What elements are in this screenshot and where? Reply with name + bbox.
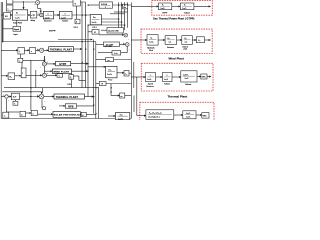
block ps2: [106, 66, 117, 77]
svg-text:1: 1: [105, 7, 106, 9]
svg-text:Kₚ₂: Kₚ₂: [109, 69, 112, 71]
block vi: [99, 82, 106, 86]
svg-text:Solar Field: Solar Field: [13, 22, 22, 25]
svg-text:GRC: GRC: [202, 77, 207, 79]
wind wires: [141, 39, 211, 41]
svg-text:Turbine: Turbine: [184, 12, 190, 14]
svg-text:1: 1: [150, 75, 151, 77]
block dclink2: [104, 42, 120, 47]
svg-text:Signal: Signal: [14, 29, 20, 31]
thermal block2: [163, 73, 173, 82]
block deadband: [57, 74, 63, 78]
wire c2 out: [47, 74, 58, 76]
wire left border: [0, 2, 2, 119]
block r1: [123, 4, 128, 9]
svg-text:1+sTᵣ: 1+sTᵣ: [185, 77, 190, 80]
block bottom left2: [31, 111, 37, 116]
block controller: [21, 68, 26, 78]
svg-text:a₁₂: a₁₂: [108, 60, 111, 62]
wire sp1b: [71, 73, 73, 74]
summing node banner1: [39, 48, 43, 52]
block sp1a: [75, 19, 80, 24]
banner thermal plant 1: [49, 47, 74, 52]
wire ps1 output: [101, 18, 118, 20]
thermal wires: [141, 76, 211, 79]
wire input arrow: [23, 1, 25, 9]
svg-text:GTPP: GTPP: [59, 64, 66, 66]
block topright: [99, 2, 112, 8]
svg-text:Turbine: Turbine: [164, 84, 170, 86]
svg-text:1+sKᵣTᵣ: 1+sKᵣTᵣ: [183, 73, 189, 76]
wire right bundle v3: [136, 77, 138, 116]
wire ctrl row: [1, 75, 8, 77]
svg-text:+: +: [122, 32, 123, 34]
wind block2: [165, 36, 177, 45]
svg-text:pitch: pitch: [184, 48, 188, 51]
wire right main border: [130, 3, 132, 119]
wire v35.8 area1: [35, 70, 37, 88]
wire hrow2: [4, 87, 99, 89]
svg-text:Kₚ₁: Kₚ₁: [168, 38, 171, 40]
block rfb: [65, 104, 76, 108]
summing cross marks: [36, 1, 128, 98]
svg-text:T₁₂/s: T₁₂/s: [114, 53, 118, 55]
svg-text:+: +: [3, 94, 4, 96]
wire bus verticals: [81, 2, 83, 88]
junction dots: [2, 5, 128, 115]
block sp1b: [69, 75, 74, 80]
svg-text:Kₘ₁+Kₘ₂s+Kₘ₃s²: Kₘ₁+Kₘ₂s+Kₘ₃s²: [149, 112, 162, 115]
banner gtpp2: [56, 61, 71, 65]
block v1: [92, 30, 99, 35]
block PS1: [90, 15, 101, 25]
block a2: [30, 48, 36, 54]
wire circle down: [37, 5, 39, 9]
banner solar pv: [53, 112, 80, 118]
svg-text:SOLAR PHOTOVOLTAIC: SOLAR PHOTOVOLTAIC: [54, 114, 83, 117]
wire right bundle v4: [133, 96, 135, 113]
svg-text:1+sTₖ: 1+sTₖ: [161, 8, 166, 10]
block after solar: [81, 112, 86, 117]
summing node wind1: [42, 62, 46, 66]
wire v1 left: [88, 31, 92, 33]
block area2 f2: [13, 101, 18, 105]
bottom block3: [202, 113, 209, 119]
svg-text:Thermal Plant: Thermal Plant: [168, 94, 188, 98]
thermal block1: [146, 73, 156, 82]
bottom block2: [183, 111, 196, 119]
block signal: [13, 26, 21, 31]
block governor1: [43, 11, 53, 19]
block B2: [8, 73, 15, 80]
summing node right2: [124, 33, 128, 37]
svg-text:1+sTₜ: 1+sTₜ: [164, 79, 169, 81]
wire top ext: [40, 1, 86, 3]
gtpp block2: [180, 3, 194, 10]
wire ps2 row: [88, 66, 106, 68]
wire row1: [1, 14, 12, 16]
wire left border2: [1, 2, 3, 42]
wire right bundle v2: [133, 62, 135, 88]
svg-text:THERMAL PLANT: THERMAL PLANT: [56, 96, 79, 99]
box top-left 1: [6, 0, 13, 4]
wire c1 top in: [43, 56, 45, 62]
wind block4: [196, 37, 204, 43]
svg-text:1+sTₜ: 1+sTₜ: [182, 8, 187, 10]
svg-text:s+1: s+1: [169, 42, 172, 44]
block a12: [124, 71, 129, 77]
svg-text:λ: λ: [4, 116, 5, 118]
block a12 upper: [106, 58, 114, 62]
box top-left 2: [6, 5, 13, 11]
wire top right box feed: [88, 4, 99, 6]
red box wind plant: [141, 29, 212, 53]
summing node rfb: [42, 107, 45, 110]
wire dclink2: [96, 43, 104, 45]
summing node wind2: [42, 73, 46, 77]
wire top feed: [13, 1, 36, 3]
svg-text:1+sTₛ: 1+sTₛ: [15, 18, 20, 20]
block B1: [4, 13, 11, 20]
wind block1: [147, 35, 158, 45]
svg-text:Reheat: Reheat: [185, 83, 191, 86]
gtpp block1: [159, 3, 172, 10]
svg-text:Kₚₛ: Kₚₛ: [93, 17, 96, 19]
svg-text:s: s: [19, 61, 20, 63]
wire area2 mid: [6, 99, 8, 112]
block t12b: [112, 51, 121, 56]
summing node right3: [125, 43, 129, 47]
wire solar row: [38, 113, 53, 115]
svg-text:s+1: s+1: [185, 42, 188, 44]
sign specks: [3, 4, 130, 102]
wire tangle h1: [114, 11, 128, 13]
summing node area2b: [39, 94, 44, 99]
block dclink1: [107, 28, 123, 34]
svg-text:1+sTₛ: 1+sTₛ: [45, 17, 50, 19]
svg-text:1+sTₚ: 1+sTₚ: [107, 74, 112, 76]
block solar field: [12, 10, 27, 20]
thermal grc: [201, 74, 207, 79]
block bottom corner: [3, 112, 9, 118]
svg-text:Kₚ₂: Kₚ₂: [185, 38, 188, 40]
svg-text:RFB: RFB: [68, 107, 74, 109]
svg-text:P.S.2: P.S.2: [108, 80, 112, 82]
wire topmid drop: [76, 6, 78, 19]
svg-text:+: +: [123, 42, 124, 44]
wire long sep: [2, 41, 95, 43]
svg-text:THERMAL PLANT: THERMAL PLANT: [50, 49, 73, 52]
svg-text:B₂: B₂: [10, 76, 12, 78]
wire v1 right: [99, 34, 124, 36]
svg-text:1+sTₚ: 1+sTₚ: [92, 22, 97, 24]
svg-text:Pitch: Pitch: [149, 49, 153, 52]
wire v30.9 area1: [30, 60, 32, 88]
svg-text:+: +: [35, 4, 36, 6]
svg-text:GTPP: GTPP: [162, 12, 168, 14]
wire tangle h4: [88, 24, 125, 26]
svg-text:+: +: [37, 49, 38, 51]
svg-text:1+sTₚ: 1+sTₚ: [149, 42, 154, 44]
svg-text:WIND PLANT: WIND PLANT: [53, 71, 69, 74]
svg-text:Actuator: Actuator: [167, 46, 174, 49]
wire sep2: [58, 39, 92, 41]
svg-text:DC LINK: DC LINK: [105, 46, 113, 48]
banner thermal plant 2: [54, 94, 85, 99]
block small58: [18, 58, 23, 62]
svg-text:(1+sT₁)(1+sT₂): (1+sT₁)(1+sT₂): [149, 117, 161, 119]
block a1: [18, 48, 25, 55]
svg-text:Kₛ: Kₛ: [16, 13, 18, 15]
svg-text:ƒ: ƒ: [19, 50, 20, 53]
red box bottom: [140, 102, 214, 122]
block ps3: [116, 113, 130, 120]
gtpp wires: [152, 5, 211, 7]
svg-text:Kₚ: Kₚ: [151, 38, 153, 40]
wire area2 banner row: [1, 96, 5, 98]
block turbine1: [60, 11, 73, 19]
wire area2 top: [2, 91, 41, 93]
wire tangle h3: [101, 21, 121, 23]
wire dclink row: [101, 29, 107, 31]
wire wind row: [44, 70, 52, 72]
svg-text:a₁₂: a₁₂: [125, 74, 128, 76]
svg-text:AC-DC LINK: AC-DC LINK: [108, 30, 119, 33]
svg-text:1+sTₖ: 1+sTₖ: [147, 79, 152, 81]
summing node row1: [40, 13, 44, 17]
svg-text:Gas Thermal Power Plant ( GTPP: Gas Thermal Power Plant ( GTPP): [153, 18, 194, 21]
svg-text:a₁₂: a₁₂: [120, 96, 123, 98]
svg-text:Governor: Governor: [146, 86, 154, 88]
svg-text:Turbine: Turbine: [62, 20, 68, 23]
thermal block3 reheater: [181, 71, 197, 82]
block right a12b: [120, 93, 125, 98]
block delay: [30, 11, 37, 18]
wire bottom border: [1, 118, 131, 120]
svg-text:1+sT₂: 1+sT₂: [186, 117, 191, 119]
wire gtpp row: [47, 63, 56, 65]
wire a12 upper right: [114, 59, 132, 61]
wind block3: [182, 36, 193, 45]
svg-text:Governor: Governor: [44, 20, 52, 23]
svg-text:delay: delay: [31, 20, 35, 22]
summing node top circle: [5, 1, 47, 99]
block bottom left1: [20, 111, 26, 117]
wire signal: [3, 28, 13, 30]
bottom block1: [146, 110, 174, 120]
svg-text:+: +: [39, 13, 40, 15]
wire tangle h2: [110, 13, 125, 15]
wire rfb row: [77, 105, 94, 107]
svg-text:s: s: [8, 9, 9, 11]
summing node area2: [5, 95, 8, 98]
svg-text:1+sTₚ: 1+sTₚ: [118, 118, 123, 120]
wire bus v98: [97, 88, 99, 119]
svg-text:+: +: [47, 61, 48, 63]
red box GTPP: [152, 1, 213, 16]
svg-text:+: +: [47, 73, 48, 75]
wire a12 upper left: [96, 59, 106, 61]
block top mid: [73, 0, 80, 6]
svg-text:GRC: GRC: [203, 116, 208, 118]
wire drop to junction: [41, 99, 43, 108]
wire sp1b elbow: [74, 75, 79, 77]
svg-text:S.P.1: S.P.1: [74, 27, 78, 29]
wire to red boxes: [131, 5, 152, 7]
block area2 f: [11, 93, 19, 100]
svg-text:+: +: [38, 94, 39, 96]
svg-text:Wind Plant: Wind Plant: [169, 56, 184, 60]
svg-text:1+sTₜ: 1+sTₜ: [61, 17, 66, 19]
svg-text:Input: Input: [14, 33, 19, 36]
red box thermal plant: [141, 63, 213, 91]
svg-text:S.P.1: S.P.1: [67, 84, 71, 86]
wire B1 drop: [2, 19, 4, 42]
svg-text:1: 1: [167, 75, 168, 77]
svg-text:P.S.1: P.S.1: [93, 27, 97, 29]
svg-text:GTPP: GTPP: [49, 31, 56, 33]
banner wind plant: [52, 69, 71, 73]
wire banner1 row: [1, 49, 18, 51]
bottom wires: [140, 114, 202, 117]
